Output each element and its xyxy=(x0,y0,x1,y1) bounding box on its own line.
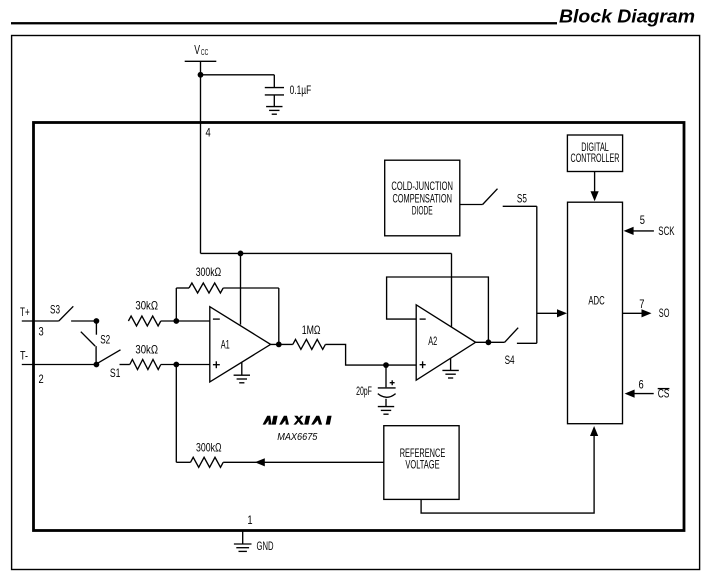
svg-text:ADC: ADC xyxy=(588,294,604,307)
svg-text:1: 1 xyxy=(247,514,252,527)
svg-text:7: 7 xyxy=(639,298,644,311)
svg-text:A1: A1 xyxy=(221,338,230,351)
svg-text:3: 3 xyxy=(39,326,44,339)
svg-text:5: 5 xyxy=(640,214,646,227)
svg-text:MAX6675: MAX6675 xyxy=(277,432,318,443)
svg-text:VOLTAGE: VOLTAGE xyxy=(405,458,439,471)
svg-text:GND: GND xyxy=(257,540,274,553)
svg-text:S5: S5 xyxy=(517,193,527,206)
svg-text:CS: CS xyxy=(658,387,670,400)
svg-text:4: 4 xyxy=(206,127,212,140)
svg-text:V: V xyxy=(194,43,200,57)
svg-text:CC: CC xyxy=(201,47,208,57)
svg-text:S1: S1 xyxy=(110,367,121,380)
svg-text:COLD-JUNCTION: COLD-JUNCTION xyxy=(391,180,453,193)
svg-text:1MΩ: 1MΩ xyxy=(302,324,321,337)
svg-text:CONTROLLER: CONTROLLER xyxy=(571,152,620,165)
svg-text:30kΩ: 30kΩ xyxy=(135,343,158,356)
svg-text:SCK: SCK xyxy=(658,225,674,238)
svg-text:300kΩ: 300kΩ xyxy=(196,441,222,454)
svg-text:6: 6 xyxy=(639,378,644,391)
svg-text:SO: SO xyxy=(659,307,670,320)
svg-text:300kΩ: 300kΩ xyxy=(196,266,222,279)
svg-text:DIODE: DIODE xyxy=(412,204,433,217)
svg-text:S4: S4 xyxy=(505,354,515,367)
svg-text:20pF: 20pF xyxy=(356,385,372,398)
svg-text:30kΩ: 30kΩ xyxy=(135,300,158,313)
svg-text:T-: T- xyxy=(20,349,28,362)
svg-text:2: 2 xyxy=(39,373,44,386)
svg-text:Block Diagram: Block Diagram xyxy=(559,5,695,26)
svg-text:S3: S3 xyxy=(50,304,60,317)
svg-text:S2: S2 xyxy=(100,334,110,347)
svg-text:0.1µF: 0.1µF xyxy=(290,84,312,97)
svg-text:T+: T+ xyxy=(20,306,30,319)
svg-text:A2: A2 xyxy=(428,335,437,348)
